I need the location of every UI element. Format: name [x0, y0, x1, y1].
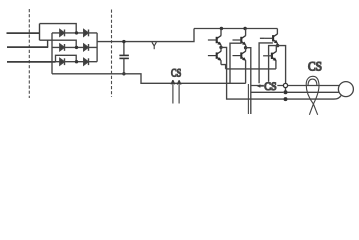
transistor Q3 body	[233, 36, 247, 46]
wire: hook 2 over row2 to midpoint	[40, 40, 77, 47]
rectifier left bus	[51, 33, 53, 74]
current sensor ring CS3 outer loop	[306, 76, 319, 115]
wire: DC+ rail from rectifier to inverter	[97, 29, 194, 42]
node dot row1 midpoint	[75, 31, 78, 34]
transistor Q5 emitter to mid node	[276, 43, 278, 46]
motor M circle	[338, 82, 353, 97]
diode D2 row1 right	[84, 30, 89, 37]
wire: leg2 phase output down	[246, 48, 251, 114]
transistor Q1 top leg1 collector	[220, 29, 222, 36]
phase input line B	[7, 46, 48, 48]
wire: leg3 aux drop	[259, 43, 273, 83]
phase input line C	[7, 61, 56, 63]
diode D5 row3 left	[60, 58, 65, 65]
transistor Q5 top leg3 collector	[276, 29, 278, 35]
node dot row3 midpoint	[75, 60, 78, 63]
wire: motor line 1	[251, 85, 283, 87]
transistor Q4 body	[233, 51, 247, 61]
node dot row2 midpoint	[75, 46, 78, 49]
transistor Q1 body	[208, 36, 222, 46]
wire: phase A riser	[39, 24, 41, 41]
wire: open node to dot link	[285, 88, 287, 93]
transistor Q6 body	[263, 51, 277, 61]
label CS2	[264, 82, 277, 90]
transistor Q4 emitter drop to DC-	[245, 60, 247, 83]
wire: motor line 1 to motor	[288, 85, 340, 87]
wire: leg1 emitter step	[221, 65, 226, 69]
capacitor C1 plates	[119, 54, 128, 56]
transistor Q5 body	[264, 34, 278, 44]
wire: motor line 2 to motor	[288, 91, 339, 93]
node dot capacitor bottom	[122, 72, 125, 75]
current sensor ring CS3 inner arc	[308, 79, 317, 85]
node dot top rail leg1	[220, 27, 223, 30]
transistor Q1 emitter to mid node	[220, 45, 222, 48]
transistor Q2 bottom leg1 collector	[220, 47, 222, 51]
wire: inverter emitter bus	[226, 68, 276, 70]
wire: motor line 2	[251, 91, 284, 93]
node dot leg3 mid	[276, 44, 279, 47]
rectifier right bus	[96, 33, 98, 62]
wire: leg2 aux drop	[230, 43, 242, 83]
transistor Q6 bottom leg3 collector	[275, 46, 277, 52]
arrow for label CS2	[257, 84, 261, 88]
dashed boundary line left	[28, 9, 30, 98]
transistor Q2 emitter drop	[220, 60, 222, 64]
diode D1 row1 left	[60, 30, 65, 37]
wire: motor line 3 to motor	[288, 96, 342, 100]
node dot top rail leg2	[243, 27, 246, 30]
svg-text:CS: CS	[264, 80, 276, 93]
diode D4 row2 right	[84, 44, 89, 51]
rectifier row 3 wire	[52, 61, 97, 63]
transistor Q6 emitter drop	[275, 61, 277, 69]
arrow tap sensor on DC+ rail	[152, 42, 157, 49]
wire: inverter top rail	[194, 28, 277, 30]
node dot motor line 2	[284, 90, 288, 94]
transistor Q2 body	[208, 51, 222, 61]
svg-text:CS: CS	[171, 67, 181, 80]
transistor Q3 emitter to mid node	[245, 45, 247, 48]
node dot leg1 mid	[219, 46, 222, 49]
capacitor C1 bottom lead	[123, 58, 125, 73]
transistor Q3 top leg2 collector	[245, 29, 247, 36]
rectifier row 1 wire	[52, 32, 97, 34]
node dot leg2 mid	[244, 46, 247, 49]
diode D3 row2 left	[60, 44, 65, 51]
capacitor C1 top lead	[123, 42, 125, 55]
transistor Q4 bottom leg2 collector	[245, 48, 247, 52]
wire: leg3 mid to motor line 1 drop	[269, 46, 278, 86]
wire: leg1 phase output down to motor line 3	[221, 47, 284, 99]
phase input line A	[7, 32, 40, 34]
wire: hook 1 over row1 to midpoint	[40, 24, 77, 33]
diode D6 row3 right	[84, 58, 89, 65]
rectifier row 2 wire	[52, 46, 97, 48]
current sensor CS2 prong	[247, 84, 249, 114]
node open circle motor line 1	[283, 83, 287, 87]
wire: phase B riser	[47, 40, 49, 47]
dashed boundary line middle	[111, 10, 113, 98]
current sensor CS1 prongs on DC- rail	[171, 80, 181, 103]
svg-text:CS: CS	[308, 59, 322, 74]
wire: DC- rail lower	[52, 74, 246, 84]
node dot motor line 3	[284, 97, 288, 101]
wire: phase C riser and hook 3 to row3 midpoint	[56, 55, 77, 62]
wire: leg3 phase output down to ring node	[278, 46, 286, 84]
node dot capacitor top	[122, 40, 125, 43]
